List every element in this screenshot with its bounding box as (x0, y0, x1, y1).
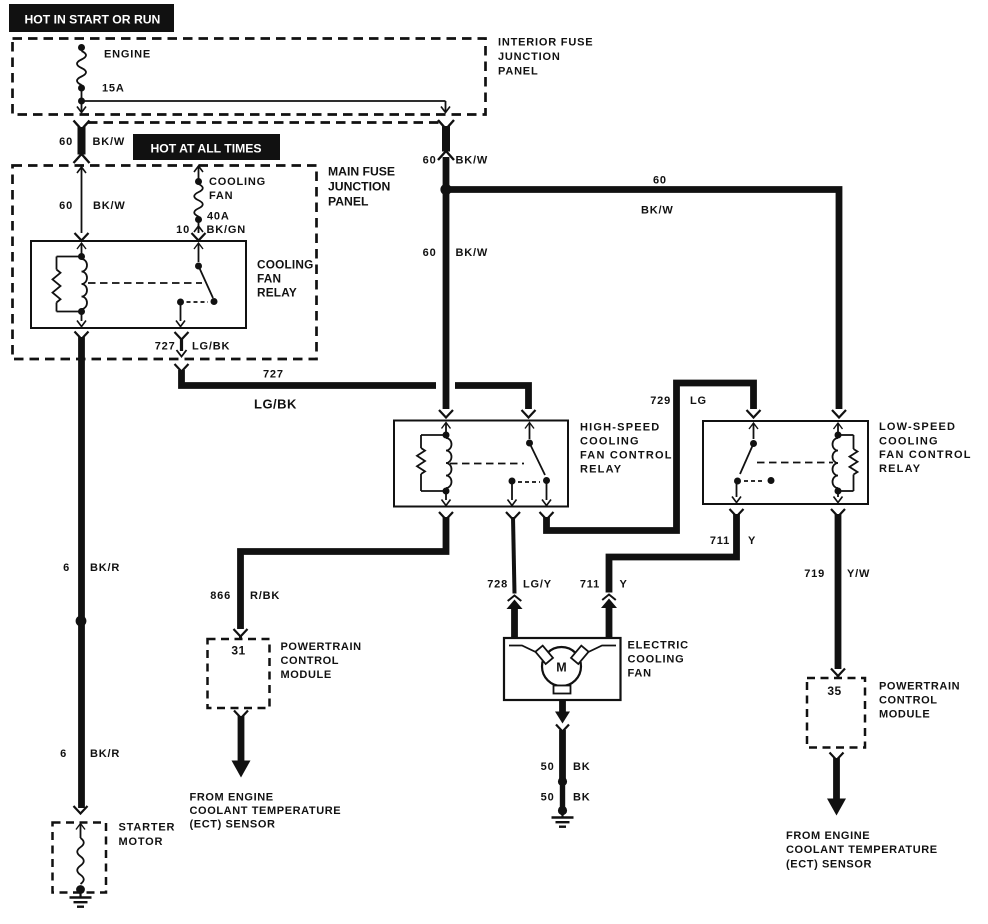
low-speed cooling fan control relay box (703, 421, 868, 504)
label pin 31 (231, 644, 245, 658)
svg-text:BK: BK (573, 761, 591, 773)
connector in wire 60 BK/W right (438, 120, 454, 160)
svg-text:719: 719 (804, 568, 825, 580)
high-speed cooling fan control relay box (394, 421, 568, 507)
svg-text:FAN: FAN (209, 190, 233, 202)
power label HOT AT ALL TIMES (133, 134, 280, 160)
svg-text:FAN CONTROL: FAN CONTROL (879, 449, 972, 461)
svg-text:FAN CONTROL: FAN CONTROL (580, 450, 673, 462)
label COOLING FAN (209, 176, 266, 202)
fuse COOLING FAN 40A (192, 166, 206, 241)
wire 6 BK/R to starter motor (75, 332, 89, 809)
svg-text:BK/W: BK/W (456, 155, 489, 167)
label 6 (upper) (63, 562, 70, 574)
svg-text:866: 866 (210, 590, 231, 602)
svg-text:HOT IN START OR RUN: HOT IN START OR RUN (25, 13, 161, 27)
cooling fan relay coil (77, 243, 87, 327)
svg-text:BK/W: BK/W (641, 205, 674, 217)
svg-text:RELAY: RELAY (580, 464, 622, 476)
label FROM ENGINE COOLANT TEMPERATURE (ECT) SENSOR right (786, 830, 938, 871)
svg-text:HIGH-SPEED: HIGH-SPEED (580, 422, 660, 434)
label 6 (lower) (60, 748, 67, 760)
splice node 50 BK lower (558, 806, 567, 815)
svg-text:6: 6 (60, 748, 67, 760)
label LOW-SPEED COOLING FAN CONTROL RELAY (879, 421, 972, 475)
svg-text:35: 35 (827, 684, 841, 698)
arrow from ECT sensor to PCM 35 (827, 753, 846, 816)
svg-text:31: 31 (231, 644, 245, 658)
svg-text:727: 727 (155, 341, 176, 353)
label 60 (right connector) (423, 155, 437, 167)
wire fuse output to right branch (82, 101, 451, 113)
label 50 (upper) (541, 761, 555, 773)
svg-text:50: 50 (541, 761, 555, 773)
label 15A (102, 83, 125, 95)
svg-text:60: 60 (653, 175, 667, 187)
svg-text:JUNCTION: JUNCTION (328, 180, 390, 194)
wire 729 LG to low-speed relay (540, 383, 761, 531)
svg-text:FAN: FAN (628, 668, 652, 680)
label BK (upper) (573, 761, 591, 773)
svg-text:MODULE: MODULE (281, 669, 332, 681)
svg-text:POWERTRAIN: POWERTRAIN (281, 641, 362, 653)
powertrain control module pin 31 dashed box (208, 639, 270, 708)
label BK/GN (207, 224, 246, 236)
svg-text:60: 60 (59, 200, 73, 212)
low-speed relay coil (833, 423, 843, 503)
label BK/W (right connector) (456, 155, 489, 167)
label BK (lower) (573, 792, 591, 804)
label BK/W (mid) (456, 247, 489, 259)
wire 50 BK fan ground (555, 700, 570, 779)
interior fuse junction panel inner dashed divider (88, 121, 440, 124)
label Y (lower) (620, 579, 628, 591)
svg-text:FAN: FAN (257, 272, 281, 286)
svg-text:15A: 15A (102, 83, 125, 95)
svg-text:Y/W: Y/W (847, 568, 870, 580)
label HIGH-SPEED COOLING FAN CONTROL RELAY (580, 422, 673, 476)
label LG/Y (523, 579, 552, 591)
label BK/W (branch) (641, 205, 674, 217)
svg-text:COOLING: COOLING (628, 654, 685, 666)
label 866 (210, 590, 231, 602)
svg-text:LG: LG (690, 395, 707, 407)
main fuse junction panel dashed box (13, 166, 317, 360)
svg-text:BK/W: BK/W (93, 200, 126, 212)
cooling fan relay box (31, 241, 246, 328)
label ELECTRIC COOLING FAN (628, 640, 689, 680)
svg-text:60: 60 (423, 247, 437, 259)
label ENGINE (104, 49, 151, 61)
wire 728 LG/Y to electric cooling fan (506, 512, 523, 638)
svg-text:COOLING: COOLING (209, 176, 266, 188)
cooling fan relay dashed actuator link (88, 282, 202, 284)
low-speed relay switch (732, 423, 775, 503)
svg-text:BK/GN: BK/GN (207, 224, 246, 236)
svg-text:BK/R: BK/R (90, 748, 120, 760)
low-speed relay coil shunt resistor (838, 435, 858, 491)
label 60 (main panel) (59, 200, 73, 212)
connector in wire 60 BK/W left (74, 121, 90, 164)
wire 719 Y/W to powertrain control module 35 (831, 509, 845, 678)
label LG/BK (run) (254, 397, 297, 412)
svg-text:FROM ENGINE: FROM ENGINE (190, 792, 274, 804)
svg-text:BK/W: BK/W (93, 136, 126, 148)
svg-text:MOTOR: MOTOR (119, 836, 164, 848)
starter motor winding (76, 824, 85, 894)
svg-text:(ECT) SENSOR: (ECT) SENSOR (786, 859, 872, 871)
svg-text:COOLANT TEMPERATURE: COOLANT TEMPERATURE (786, 844, 938, 856)
svg-text:PANEL: PANEL (328, 195, 369, 209)
wire 60 BK/W vertical to high-speed relay (439, 157, 453, 418)
cooling fan relay switch (176, 243, 218, 327)
svg-text:MODULE: MODULE (879, 709, 930, 721)
fuse ENGINE 15A (77, 44, 86, 105)
label 50 (lower) (541, 792, 555, 804)
svg-text:RELAY: RELAY (879, 463, 921, 475)
svg-text:711: 711 (710, 535, 730, 547)
wire 727 LG/BK to high-speed relay (182, 370, 536, 418)
interior fuse junction panel dashed box (13, 39, 486, 115)
starter motor dashed box (53, 823, 107, 893)
svg-text:BK/W: BK/W (456, 247, 489, 259)
label POWERTRAIN CONTROL MODULE right (879, 681, 960, 721)
label 40A (207, 211, 230, 223)
cooling fan relay coil shunt resistor (53, 257, 82, 312)
label 719 (804, 568, 825, 580)
wire 50 BK splice segment (560, 784, 565, 807)
svg-text:711: 711 (580, 579, 600, 591)
svg-text:40A: 40A (207, 211, 230, 223)
svg-text:60: 60 (59, 136, 73, 148)
label 60 (branch) (653, 175, 667, 187)
arrow from ECT sensor to PCM 31 (232, 711, 251, 778)
svg-text:CONTROL: CONTROL (281, 655, 340, 667)
svg-text:M: M (556, 661, 566, 675)
label 711 (upper) (710, 535, 730, 547)
svg-text:10: 10 (176, 224, 190, 236)
svg-text:LG/BK: LG/BK (192, 341, 230, 353)
high-speed relay coil shunt resistor (417, 435, 446, 491)
wire 711 Y to electric cooling fan (601, 509, 744, 638)
junction node 60 BK/W (440, 184, 451, 195)
wire 866 R/BK to powertrain control module (234, 512, 454, 639)
label LG (690, 395, 707, 407)
fan motor internal wires (509, 646, 616, 657)
svg-text:STARTER: STARTER (119, 822, 176, 834)
svg-text:JUNCTION: JUNCTION (498, 51, 561, 63)
high-speed relay coil (442, 423, 452, 506)
svg-text:LG/BK: LG/BK (254, 397, 297, 412)
wire fuse output down-left with arrow (77, 101, 86, 113)
label 728 (487, 579, 508, 591)
svg-text:INTERIOR FUSE: INTERIOR FUSE (498, 37, 593, 49)
label INTERIOR FUSE JUNCTION PANEL (498, 37, 593, 78)
ground G100 electric cooling fan (552, 811, 574, 827)
label COOLING FAN RELAY (257, 258, 313, 300)
label BK/R (upper) (90, 562, 120, 574)
label Y (upper) (748, 535, 756, 547)
wire 60 BK/W into cooling fan relay (75, 167, 89, 241)
powertrain control module pin 35 dashed box (807, 678, 865, 748)
label 60 (mid) (423, 247, 437, 259)
high-speed relay switch (508, 423, 552, 506)
wire 60 BK/W branch to low-speed relay (446, 190, 846, 418)
svg-text:COOLING: COOLING (580, 436, 640, 448)
svg-text:COOLING: COOLING (879, 436, 939, 448)
wire end connector at starter motor (74, 806, 88, 814)
svg-text:6: 6 (63, 562, 70, 574)
low-speed relay dashed actuator link (757, 462, 833, 464)
svg-text:COOLANT TEMPERATURE: COOLANT TEMPERATURE (190, 805, 342, 817)
label LG/BK (inside panel) (192, 341, 230, 353)
label BK/W (left connector) (93, 136, 126, 148)
motor M electric cooling fan (535, 646, 588, 694)
power feed label HOT IN START OR RUN (9, 4, 174, 32)
label 711 (lower) (580, 579, 600, 591)
label POWERTRAIN CONTROL MODULE left (281, 641, 362, 681)
svg-text:HOT AT ALL TIMES: HOT AT ALL TIMES (151, 142, 262, 156)
label BK/R (lower) (90, 748, 120, 760)
high-speed relay dashed actuator link (450, 463, 524, 465)
svg-text:COOLING: COOLING (257, 258, 313, 272)
wire 727 LG/BK relay output (175, 332, 189, 372)
label MAIN FUSE JUNCTION PANEL (328, 165, 395, 209)
label STARTER MOTOR (119, 822, 176, 849)
label Y/W (847, 568, 870, 580)
svg-text:RELAY: RELAY (257, 286, 297, 300)
svg-text:BK: BK (573, 792, 591, 804)
svg-text:FROM ENGINE: FROM ENGINE (786, 830, 870, 842)
svg-text:Y: Y (620, 579, 628, 591)
svg-text:CONTROL: CONTROL (879, 695, 938, 707)
svg-text:728: 728 (487, 579, 508, 591)
svg-text:727: 727 (263, 369, 284, 381)
label 10 (176, 224, 190, 236)
svg-text:LOW-SPEED: LOW-SPEED (879, 421, 956, 433)
label R/BK (250, 590, 280, 602)
svg-text:R/BK: R/BK (250, 590, 280, 602)
svg-text:729: 729 (650, 395, 671, 407)
svg-text:50: 50 (541, 792, 555, 804)
svg-text:ENGINE: ENGINE (104, 49, 151, 61)
label pin 35 (827, 684, 841, 698)
svg-text:BK/R: BK/R (90, 562, 120, 574)
label 60 (left connector) (59, 136, 73, 148)
svg-text:60: 60 (423, 155, 437, 167)
svg-text:MAIN FUSE: MAIN FUSE (328, 165, 395, 179)
svg-text:POWERTRAIN: POWERTRAIN (879, 681, 960, 693)
ground G101 starter motor (70, 890, 92, 907)
label 727 (run) (263, 369, 284, 381)
svg-text:ELECTRIC: ELECTRIC (628, 640, 689, 652)
electric cooling fan box (504, 638, 621, 700)
label 727 (inside panel) (155, 341, 176, 353)
label BK/W (main panel) (93, 200, 126, 212)
svg-text:Y: Y (748, 535, 756, 547)
svg-text:LG/Y: LG/Y (523, 579, 552, 591)
splice node 50 BK upper (558, 777, 567, 786)
label 729 (650, 395, 671, 407)
svg-text:(ECT) SENSOR: (ECT) SENSOR (190, 819, 276, 831)
label FROM ENGINE COOLANT TEMPERATURE (ECT) SENSOR left (190, 792, 342, 831)
svg-text:PANEL: PANEL (498, 66, 538, 78)
